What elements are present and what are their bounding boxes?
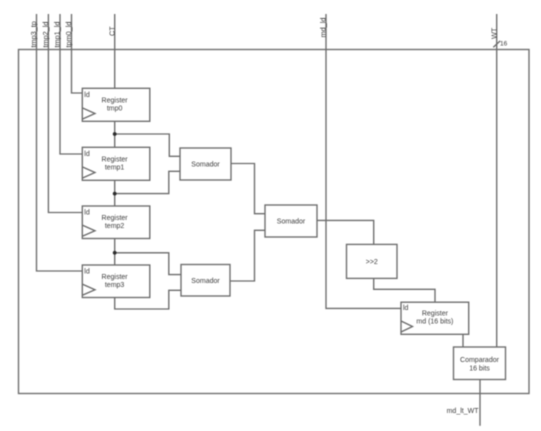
register temp3 — [82, 265, 150, 298]
svg-text:ld: ld — [403, 305, 409, 312]
wire Somador2 output to Somador3 lower input — [230, 230, 265, 281]
svg-text:Register: Register — [102, 215, 129, 222]
svg-text:md (16 bits): md (16 bits) — [416, 319, 453, 326]
adder Somador U3 (middle) — [265, 205, 317, 237]
svg-text:>>2: >>2 — [366, 259, 378, 266]
shifter >>2 — [347, 244, 398, 278]
svg-text:16 bits: 16 bits — [469, 365, 490, 372]
node junction temp2 output — [113, 251, 117, 255]
svg-text:CT: CT — [107, 26, 116, 36]
node junction temp1 output — [113, 192, 117, 196]
svg-text:temp3: temp3 — [105, 282, 125, 289]
wire temp2 to temp3 chain — [114, 239, 116, 266]
svg-text:md_lt_WT: md_lt_WT — [447, 408, 480, 415]
svg-text:tmp2_ld: tmp2_ld — [41, 22, 50, 48]
svg-text:Register: Register — [102, 97, 129, 104]
adder Somador U2 (bottom) — [181, 265, 230, 297]
register md (16 bits) — [401, 302, 469, 334]
wire tmp2_ld input — [48, 14, 82, 213]
svg-text:WT: WT — [489, 27, 498, 39]
svg-text:temp1: temp1 — [105, 165, 125, 172]
outer enclosure box — [19, 50, 530, 394]
wire tmp0 output branch to Somador1 upper input — [115, 134, 180, 156]
wire Register md output to Comparador — [462, 334, 464, 347]
svg-text:16: 16 — [500, 41, 508, 48]
svg-text:ld: ld — [84, 92, 90, 99]
wire tmp3_tp input — [37, 14, 83, 271]
node junction tmp0 output — [113, 132, 117, 136]
svg-text:tmp1_ld: tmp1_ld — [53, 22, 62, 48]
register temp2 — [82, 206, 150, 239]
wire Comparador output md_lt_WT — [479, 380, 481, 426]
svg-text:Register: Register — [422, 311, 449, 318]
svg-text:Register: Register — [102, 156, 129, 163]
adder Somador U1 (top) — [180, 148, 231, 180]
wire tpm0_ld input — [72, 14, 83, 93]
svg-text:Register: Register — [102, 274, 129, 281]
svg-text:Comparador: Comparador — [460, 357, 500, 364]
svg-text:md_ld: md_ld — [319, 18, 328, 38]
bus width slash on WT — [493, 41, 500, 47]
wire temp2 output branch to Somador2 upper input — [115, 253, 181, 275]
svg-text:Somador: Somador — [277, 219, 306, 226]
wire temp1 output branch to Somador1 lower input — [115, 171, 180, 193]
wire tmp1_ld input — [60, 14, 82, 154]
wire Somador3 output to shifter input — [317, 220, 374, 244]
svg-text:tpm0_ld: tpm0_ld — [64, 22, 73, 48]
svg-text:temp2: temp2 — [105, 223, 125, 230]
comparator Comparador 16 bits — [454, 347, 506, 380]
register temp1 — [82, 147, 150, 180]
wire CT clock input — [114, 14, 116, 88]
svg-text:ld: ld — [84, 269, 90, 276]
wire temp1 to temp2 chain — [114, 180, 116, 206]
wire temp3 output to Somador2 lower input — [115, 290, 181, 309]
svg-text:tmp0: tmp0 — [107, 106, 123, 113]
wire shifter output to Register md input — [374, 279, 435, 303]
svg-text:Somador: Somador — [191, 278, 220, 285]
svg-text:tmp3_tp: tmp3_tp — [29, 21, 38, 47]
wire Somador1 output to Somador3 upper input — [231, 164, 265, 214]
svg-text:Somador: Somador — [191, 162, 220, 169]
svg-text:ld: ld — [84, 151, 90, 158]
wire md_ld input — [326, 14, 401, 308]
wire WT input — [496, 14, 498, 347]
wire tmp0 to temp1 chain — [114, 121, 116, 147]
register tmp0 — [82, 88, 150, 121]
svg-text:ld: ld — [84, 210, 90, 217]
